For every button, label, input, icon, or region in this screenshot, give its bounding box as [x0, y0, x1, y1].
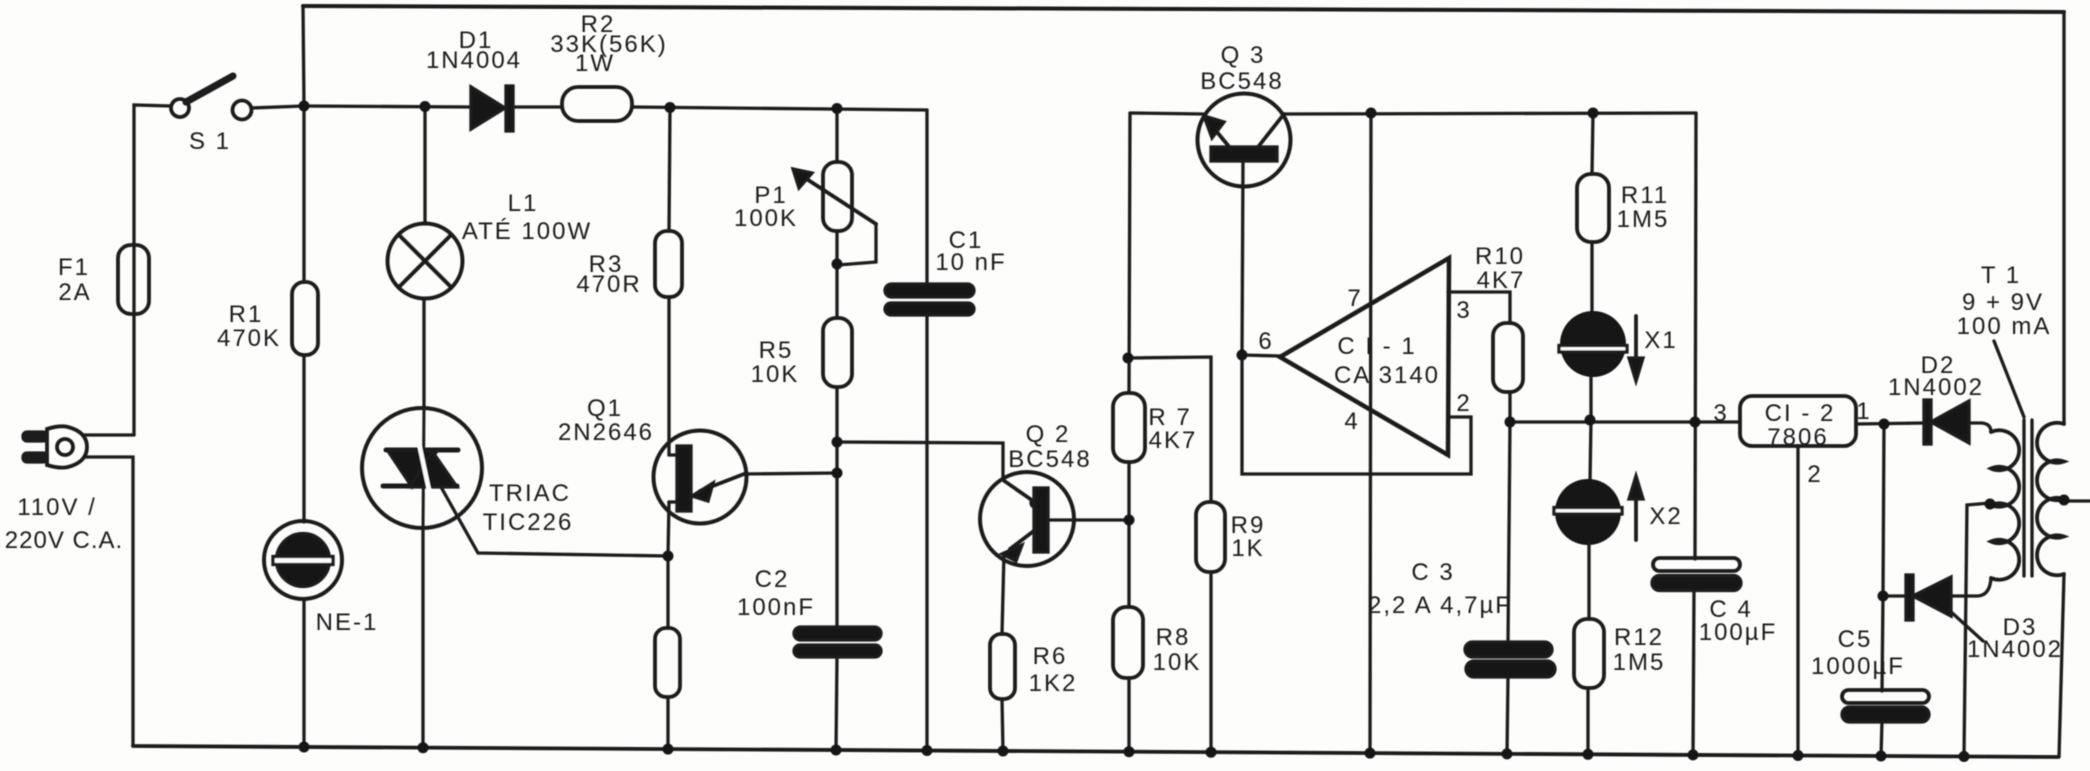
svg-text:100 mA: 100 mA — [1957, 313, 2052, 340]
wire L1 to triac — [422, 299, 425, 408]
triac TIC226 — [362, 408, 482, 528]
wire pin3 to R10 — [1448, 292, 1510, 323]
svg-text:1M5: 1M5 — [1617, 206, 1670, 233]
svg-text:7806: 7806 — [1767, 424, 1828, 451]
transistor Q1 2N2646 — [654, 431, 747, 524]
node rail C5 — [1876, 751, 1887, 762]
svg-text:Q 2: Q 2 — [1026, 421, 1071, 448]
wire left column bottom (plug to rail) — [86, 457, 133, 746]
resistor R3 470R — [655, 231, 682, 297]
wire NE-1 to rail — [302, 599, 305, 747]
node L1 top junction — [420, 101, 431, 112]
svg-text:1W: 1W — [575, 50, 615, 77]
svg-text:R11: R11 — [1621, 182, 1669, 209]
wire T1 center tap — [1964, 503, 1990, 756]
node R11 rail junction — [1588, 108, 1599, 119]
wire T1 label leader — [1994, 341, 2024, 417]
svg-text:R6: R6 — [1033, 643, 1068, 670]
svg-text:1K: 1K — [1231, 535, 1264, 562]
svg-text:220V C.A.: 220V C.A. — [5, 527, 123, 554]
svg-text:CA 3140: CA 3140 — [1334, 362, 1440, 389]
wire R9 to rail — [1209, 572, 1212, 752]
wire R6 to rail — [1002, 699, 1003, 751]
wire pin2 of CI-2 to rail — [1796, 446, 1799, 756]
node T1 secondary center tap — [1985, 499, 1996, 510]
wire X2 to R12 — [1587, 542, 1590, 619]
node X1/X2 junction — [1585, 415, 1596, 426]
svg-text:Q1: Q1 — [587, 395, 623, 422]
svg-text:470R: 470R — [576, 271, 641, 298]
svg-text:100µF: 100µF — [1699, 619, 1778, 646]
svg-text:TRIAC: TRIAC — [489, 480, 571, 507]
wire R1 to NE-1 — [302, 355, 305, 522]
node triac gate junction — [663, 551, 674, 562]
wire Q1 base1 down to node — [668, 502, 669, 628]
svg-text:C2: C2 — [755, 566, 790, 593]
wire X1 to X2 — [1590, 377, 1591, 482]
node T1 primary tap — [2059, 495, 2070, 506]
wire R4 to rail — [666, 697, 669, 749]
svg-text:9 + 9V: 9 + 9V — [1962, 289, 2044, 316]
neon lamp NE-1 — [264, 521, 342, 599]
svg-text:R1: R1 — [229, 301, 264, 328]
transformer T1 core — [2024, 420, 2032, 576]
resistor R12 1M5 — [1574, 619, 1604, 688]
lamp L1 — [388, 224, 463, 299]
diode D2 1N4002 — [1924, 400, 1969, 444]
node pin7 rail junction — [1366, 108, 1377, 119]
regulator CI-2 7806 — [1740, 396, 1856, 446]
wire P1 drop from AC line — [835, 108, 838, 162]
wire D3 cathode link — [1883, 594, 1906, 597]
diode D3 1N4002 — [1906, 575, 1951, 620]
node R3 top junction — [665, 102, 676, 113]
svg-text:1: 1 — [1856, 398, 1871, 425]
resistor R9 1K — [1196, 502, 1225, 572]
node Q2 base junction — [1124, 515, 1135, 526]
svg-text:CI - 2: CI - 2 — [1765, 400, 1836, 427]
svg-text:S 1: S 1 — [189, 128, 231, 155]
capacitor C1 10nF — [885, 284, 974, 315]
node rail R12 — [1583, 749, 1594, 760]
wire right edge bottom — [2059, 574, 2064, 757]
wire D1 to R2 — [513, 105, 562, 108]
resistor R10 4K7 — [1493, 323, 1523, 392]
wire P1 to R5 — [835, 231, 838, 318]
svg-text:R10: R10 — [1475, 243, 1525, 270]
svg-text:R12: R12 — [1614, 624, 1664, 651]
wire inverting input line to R9 — [1128, 357, 1211, 502]
wire rectifier output column — [1882, 424, 1884, 691]
node P1 top junction — [832, 103, 843, 114]
svg-text:X2: X2 — [1649, 503, 1682, 530]
svg-text:10K: 10K — [751, 361, 800, 388]
node rail pin4 — [1365, 748, 1376, 759]
wire R3 drop from AC line — [669, 107, 670, 231]
wire S1 to node A — [251, 106, 304, 108]
svg-text:4K7: 4K7 — [1477, 267, 1526, 294]
svg-text:100K: 100K — [734, 205, 798, 232]
svg-text:TIC226: TIC226 — [483, 509, 574, 536]
capacitor C3 — [1465, 642, 1555, 677]
wire Q1 emitter to P1 column — [744, 473, 837, 474]
wire L1 drop — [423, 106, 426, 224]
svg-text:R5: R5 — [759, 337, 794, 364]
resistor R6 1K2 — [990, 634, 1015, 699]
svg-text:2: 2 — [1807, 461, 1822, 488]
sensor X1 — [1559, 311, 1643, 381]
node R10 bottom junction — [1505, 417, 1516, 428]
wire right edge top — [2062, 12, 2065, 424]
node rail center tap — [1959, 751, 1970, 762]
wire R7 to R8 — [1127, 462, 1130, 607]
svg-text:Q 3: Q 3 — [1221, 42, 1266, 69]
capacitor C2 100nF — [794, 627, 881, 657]
resistor R8 10K — [1113, 607, 1143, 678]
svg-text:C5: C5 — [1838, 626, 1873, 653]
capacitor C4 100uF — [1652, 558, 1741, 591]
wire R2 to C1 corner — [632, 107, 927, 110]
wire R7 column from rail — [1129, 113, 1130, 393]
svg-text:NE-1: NE-1 — [316, 609, 379, 636]
capacitor C5 1000uF — [1842, 690, 1929, 722]
svg-text:T 1: T 1 — [1981, 262, 2021, 289]
wire plug top stub — [83, 433, 134, 436]
svg-text:3: 3 — [1713, 400, 1728, 427]
AC plug — [23, 426, 87, 467]
resistor R7 4K7 — [1113, 393, 1145, 462]
wire D3 anode to T1 winding — [1951, 578, 1991, 596]
wire pin1 of CI-2 to D2 — [1856, 423, 1924, 424]
wire pin7 pin4 supply line — [1370, 113, 1371, 753]
wire Vcc rail y=113 right part — [1285, 113, 1696, 114]
svg-text:1N4004: 1N4004 — [426, 47, 522, 74]
svg-text:BC548: BC548 — [1008, 446, 1091, 473]
wire D3 label leader — [1950, 611, 1983, 641]
svg-text:F1: F1 — [58, 254, 90, 281]
switch S1 — [171, 76, 252, 120]
resistor R11 1M5 — [1577, 174, 1609, 242]
wire C5 to rail — [1881, 721, 1882, 756]
fuse F1 — [118, 245, 149, 314]
node rail R4 — [663, 744, 674, 755]
wire Q2 collector link — [837, 442, 1003, 480]
wire C4 column — [1695, 113, 1696, 559]
svg-text:2N2646: 2N2646 — [558, 419, 654, 446]
diode D1 1N4004 — [471, 86, 513, 131]
node rail C1 — [922, 745, 933, 756]
wire C1 drop — [925, 110, 928, 284]
svg-text:C I - 1: C I - 1 — [1337, 333, 1416, 360]
wire Q2 emitter to R6 — [1002, 553, 1004, 634]
node Q1 emitter junction — [832, 468, 843, 479]
node inverting input junction — [1123, 353, 1134, 364]
wire R12 to rail — [1586, 688, 1589, 754]
svg-text:3: 3 — [1456, 297, 1471, 324]
node C2/Q2 collector junction — [832, 437, 843, 448]
wire C2 to rail — [836, 657, 837, 750]
svg-text:2,2 A 4,7µF: 2,2 A 4,7µF — [1368, 592, 1512, 619]
wire triac gate — [441, 487, 668, 556]
transistor Q2 BC548 — [980, 472, 1074, 566]
svg-text:R8: R8 — [1156, 624, 1191, 651]
wire R10 to C3 — [1508, 392, 1510, 642]
wire Q2 base to R7 column — [1048, 518, 1129, 521]
node P1 wiper junction — [832, 259, 843, 270]
wire C3 to rail — [1507, 677, 1508, 754]
wire top border — [303, 6, 2064, 12]
wire top vertical x=304 (border to R1) — [303, 6, 304, 282]
svg-text:4: 4 — [1344, 408, 1359, 435]
wire bottom rail — [133, 746, 2058, 757]
resistor R2 33K 1W — [562, 87, 632, 121]
transistor Q3 BC548 — [1198, 94, 1291, 187]
node rail C4 — [1688, 749, 1699, 760]
sensor X2 — [1554, 476, 1643, 545]
svg-text:2A: 2A — [58, 279, 91, 306]
svg-text:4K7: 4K7 — [1149, 427, 1198, 454]
node A S1/D1 junction — [299, 101, 310, 112]
node op-amp output junction — [1237, 350, 1248, 361]
svg-text:10 nF: 10 nF — [935, 249, 1006, 276]
svg-text:1N4002: 1N4002 — [1888, 374, 1984, 401]
svg-text:BC548: BC548 — [1200, 68, 1283, 95]
svg-text:470K: 470K — [217, 325, 281, 352]
svg-text:1000µF: 1000µF — [1811, 653, 1905, 680]
wire Vcc rail y=113 left part — [1130, 113, 1203, 114]
transformer T1 secondary winding — [1991, 430, 2019, 580]
wire R3 to Q1 — [667, 297, 670, 455]
wire Q3 base down — [1242, 161, 1243, 355]
svg-text:1N4002: 1N4002 — [1967, 636, 2063, 663]
wire T1 primary tap stub — [2064, 499, 2090, 502]
resistor R1 470K — [292, 282, 318, 355]
svg-text:6: 6 — [1258, 328, 1273, 355]
wire op-amp output node — [1242, 355, 1280, 356]
wire main AC line y=107 — [304, 106, 470, 107]
node rail CI-2 pin2 — [1793, 750, 1804, 761]
node rail R6 — [998, 746, 1009, 757]
wire R5 to C2 — [835, 387, 838, 627]
svg-text:ATÉ 100W: ATÉ 100W — [462, 218, 592, 245]
node rail C2 — [831, 745, 842, 756]
node regulator output junction — [1879, 419, 1890, 430]
op-amp U1 CI-1 CA3140 — [1280, 258, 1449, 455]
wire D2 anode to T1 winding — [1969, 423, 1991, 432]
wire C1 to rail — [925, 315, 928, 750]
resistor R5 10K — [823, 318, 852, 387]
svg-text:1K2: 1K2 — [1029, 670, 1078, 697]
potentiometer P1 100K — [793, 162, 876, 265]
transformer T1 primary winding — [2037, 423, 2064, 576]
svg-text:L1: L1 — [508, 190, 539, 217]
svg-text:7: 7 — [1347, 285, 1362, 312]
node rail NE-1 — [299, 742, 310, 753]
svg-text:100nF: 100nF — [737, 594, 815, 621]
wire X node to regulator input — [1510, 420, 1695, 423]
svg-text:110V /: 110V / — [17, 494, 97, 521]
node regulator input junction — [1690, 417, 1701, 428]
wire C4 to rail — [1693, 590, 1694, 755]
wire feedback pin6 to pin2 — [1242, 355, 1471, 474]
node rail R9 — [1206, 747, 1217, 758]
wire left column top (plug to S1 via F1) — [134, 105, 171, 435]
resistor R4 330R — [655, 628, 680, 697]
wire regulator input stub — [1695, 420, 1740, 423]
node D3 cathode junction — [1878, 591, 1889, 602]
node rail R8 — [1124, 746, 1135, 757]
wire R11 drop from rail — [1592, 113, 1593, 174]
wire triac to rail — [421, 528, 424, 748]
svg-text:1M5: 1M5 — [1613, 649, 1666, 676]
svg-text:X1: X1 — [1644, 327, 1677, 354]
node rail triac — [418, 742, 429, 753]
svg-text:2: 2 — [1456, 390, 1471, 417]
svg-text:C 3: C 3 — [1411, 559, 1454, 586]
svg-text:10K: 10K — [1153, 649, 1202, 676]
wire R8 to rail — [1127, 678, 1130, 752]
wire R11 to X1 — [1590, 242, 1593, 312]
node rail C3 — [1502, 748, 1513, 759]
